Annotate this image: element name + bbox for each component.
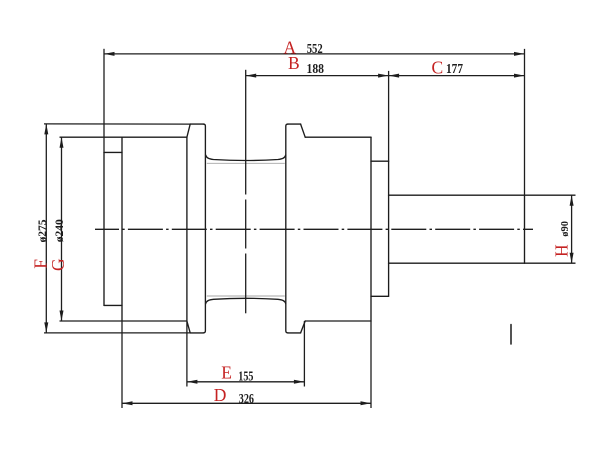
svg-text:177: 177 <box>446 62 463 77</box>
svg-text:E: E <box>221 363 232 383</box>
svg-text:552: 552 <box>307 42 323 57</box>
svg-text:G: G <box>48 258 68 271</box>
svg-text:ø240: ø240 <box>52 219 66 242</box>
svg-text:B: B <box>288 53 300 73</box>
svg-text:C: C <box>432 58 444 78</box>
svg-text:ø90: ø90 <box>559 221 571 237</box>
svg-text:ø275: ø275 <box>35 220 49 243</box>
svg-text:326: 326 <box>239 392 254 407</box>
svg-text:188: 188 <box>307 62 325 77</box>
svg-text:155: 155 <box>238 369 253 384</box>
svg-text:H: H <box>552 244 572 257</box>
svg-text:D: D <box>214 385 227 405</box>
